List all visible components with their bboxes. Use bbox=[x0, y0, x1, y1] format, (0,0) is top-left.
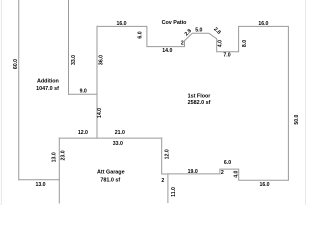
svg-text:9.0: 9.0 bbox=[80, 88, 87, 94]
svg-text:13.0: 13.0 bbox=[52, 152, 58, 162]
svg-text:4.0: 4.0 bbox=[234, 170, 240, 177]
svg-text:7.0: 7.0 bbox=[223, 53, 230, 59]
svg-text:1st Floor: 1st Floor bbox=[188, 93, 212, 99]
svg-text:16.0: 16.0 bbox=[116, 21, 126, 27]
wall garage step 2.0 bbox=[162, 173, 168, 175]
svg-text:19.0: 19.0 bbox=[188, 169, 198, 175]
wall garage left 23.0 bbox=[58, 138, 60, 203]
svg-text:16.0: 16.0 bbox=[258, 21, 268, 27]
svg-text:2: 2 bbox=[181, 41, 184, 47]
svg-text:2582.0 sf: 2582.0 sf bbox=[188, 100, 211, 106]
svg-text:8.0: 8.0 bbox=[242, 40, 248, 47]
svg-text:6.0: 6.0 bbox=[224, 160, 231, 166]
svg-text:2: 2 bbox=[221, 170, 224, 176]
svg-text:6.0: 6.0 bbox=[138, 31, 144, 38]
svg-text:781.0 sf: 781.0 sf bbox=[100, 177, 120, 183]
svg-text:4.0: 4.0 bbox=[218, 40, 224, 47]
svg-text:23.0: 23.0 bbox=[61, 150, 67, 160]
svg-text:14.0: 14.0 bbox=[162, 48, 172, 54]
wall addition right 33.0 bbox=[68, 0, 70, 94]
svg-text:2: 2 bbox=[161, 178, 164, 184]
svg-text:12.0: 12.0 bbox=[165, 149, 171, 159]
svg-text:Addition: Addition bbox=[37, 79, 59, 85]
svg-text:12.0: 12.0 bbox=[78, 130, 88, 136]
svg-text:21.0: 21.0 bbox=[115, 130, 125, 136]
svg-text:16.0: 16.0 bbox=[259, 182, 269, 188]
svg-text:33.0: 33.0 bbox=[113, 141, 123, 147]
svg-text:Cov Patio: Cov Patio bbox=[162, 20, 188, 26]
svg-text:36.0: 36.0 bbox=[99, 55, 105, 65]
outline 1st floor top and right bbox=[97, 26, 288, 180]
svg-text:60.0: 60.0 bbox=[13, 59, 19, 69]
svg-text:13.0: 13.0 bbox=[35, 182, 45, 188]
page border left bbox=[0, 0, 2, 205]
page border right bbox=[304, 0, 306, 205]
svg-text:Att Garage: Att Garage bbox=[97, 170, 125, 176]
svg-text:50.0: 50.0 bbox=[294, 114, 300, 124]
wall 1st floor bottom 12.0 and 21.0 bbox=[59, 137, 161, 139]
wall 1st floor left 36.0/14.0 bbox=[96, 26, 98, 138]
svg-text:1047.0 sf: 1047.0 sf bbox=[36, 86, 59, 92]
wall addition bottom 13.0 bbox=[19, 179, 60, 181]
svg-text:14.0: 14.0 bbox=[97, 108, 103, 118]
wall 11.0 down bbox=[167, 174, 169, 203]
wall garage right 12.0 bbox=[161, 138, 163, 174]
svg-text:11.0: 11.0 bbox=[171, 187, 177, 197]
wall addition 9.0 bbox=[69, 93, 98, 95]
svg-text:33.0: 33.0 bbox=[71, 55, 77, 65]
svg-text:5.0: 5.0 bbox=[195, 28, 202, 34]
wall addition left 60.0 bbox=[18, 0, 20, 180]
